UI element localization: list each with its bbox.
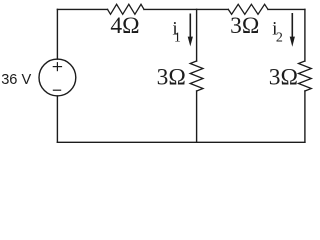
resistor R2 3-ohm zigzag (top right): [228, 4, 268, 14]
wire: top right horizontal segment from R2 to node C: [268, 8, 305, 10]
minus sign of source V1: [53, 89, 60, 91]
wire: middle branch vertical from R3 down to bottom wire junction: [196, 91, 198, 142]
resistor R1 4-ohm zigzag (top left): [108, 4, 145, 14]
voltage source V1 circle (36 V source): [39, 59, 76, 96]
svg-text:3Ω: 3Ω: [157, 65, 186, 91]
current arrow i2 (downward, left of right branch): [290, 13, 295, 47]
wire: top middle horizontal segment from R1 to R2 through node B junction: [144, 8, 228, 10]
plus sign of source V1: [53, 63, 61, 71]
current arrow i1 (downward, left of middle branch): [188, 14, 193, 47]
svg-text:3Ω: 3Ω: [269, 65, 298, 91]
svg-text:3Ω: 3Ω: [230, 13, 259, 39]
wire: right branch vertical from node C down to R4: [304, 9, 306, 61]
wire: middle branch vertical from node B junction down to R3: [196, 9, 198, 61]
resistor R3 3-ohm zigzag (middle vertical): [190, 61, 203, 91]
wire: top-left horizontal segment from node A to R1: [57, 8, 107, 10]
svg-text:2: 2: [276, 31, 283, 46]
wire: bottom horizontal return wire: [57, 141, 305, 143]
svg-text:1: 1: [174, 30, 181, 45]
resistor R4 3-ohm zigzag (right vertical): [299, 61, 312, 91]
wire: right branch vertical from R4 down to bottom-right corner: [304, 91, 306, 142]
svg-text:36 V: 36 V: [1, 72, 31, 88]
svg-text:4Ω: 4Ω: [110, 13, 139, 39]
wire: left vertical segment from node A down to voltage source + terminal: [56, 9, 58, 59]
wire: left vertical segment from source - terminal down to bottom-left corner: [56, 96, 58, 142]
